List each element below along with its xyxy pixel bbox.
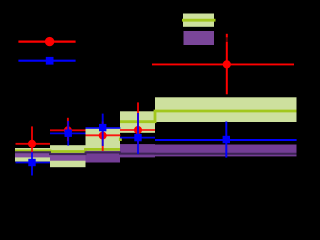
red data point bin2: horizontal error bar [50, 129, 86, 131]
red data point bin5: vertical error bar (main) [226, 42, 228, 95]
red marker bin2 [64, 126, 72, 134]
green band bin4 [120, 111, 155, 133]
purple band bin1 [15, 151, 50, 157]
purple band bin5 [155, 145, 297, 157]
red data point bin5: vertical error bar (upper, bright) [226, 34, 228, 38]
green band bin5 [155, 97, 297, 122]
legend swatch green band [183, 14, 214, 27]
red data point bin2: vertical error bar [67, 118, 69, 141]
legend entry data red: circle marker [45, 37, 54, 46]
green band bin3 [86, 128, 121, 152]
blue data point bin3: horizontal error bar [86, 127, 121, 129]
blue marker bin2 [65, 130, 72, 137]
green step connector remnant at bin3/4 edge [119, 138, 122, 141]
green band bin1 [15, 148, 50, 162]
blue data point bin2: horizontal error bar [50, 132, 86, 134]
purple band bin2 [50, 153, 86, 161]
blue marker bin5 [223, 136, 230, 143]
red data point bin3: horizontal error bar [86, 134, 121, 136]
blue data point bin4: horizontal error bar [120, 137, 155, 139]
red data point bin1: horizontal error bar [16, 143, 51, 145]
blue data point bin1: vertical error bar [31, 152, 33, 176]
blue data point bin2: vertical error bar [67, 121, 69, 146]
blue marker bin4 [134, 134, 141, 141]
legend entry data red: line [18, 40, 75, 42]
blue data point bin5: vertical error bar [225, 122, 227, 158]
green band bin2 [50, 145, 86, 167]
purple band bin3 [86, 151, 121, 163]
legend swatch green central line [182, 19, 216, 22]
red marker bin1 [28, 140, 36, 148]
red data point bin5: horizontal error bar [152, 63, 294, 65]
red marker bin3 [99, 132, 107, 140]
blue marker bin3 [99, 124, 106, 131]
purple band bin4 [120, 144, 155, 157]
red marker bin4 [134, 126, 142, 134]
red data point bin5: vertical error bar (dimmed under legend) [226, 37, 228, 41]
red marker bin5 [223, 60, 231, 68]
legend entry data blue: square marker [46, 57, 54, 65]
red data point bin1: vertical error bar [31, 126, 33, 153]
red data point bin3: vertical error bar [102, 122, 104, 152]
blue data point bin3: vertical error bar [102, 114, 104, 146]
red data point bin4: horizontal error bar [120, 129, 155, 131]
purple dark central step line [15, 152, 297, 154]
green central step line (upper bins) [120, 111, 297, 122]
blue data point bin1: horizontal error bar [16, 162, 51, 164]
red data point bin4: vertical error bar [137, 102, 139, 143]
legend swatch purple band [184, 31, 215, 45]
legend entry data blue: line [18, 60, 75, 62]
blue data point bin4: vertical error bar [137, 113, 139, 154]
blue marker bin1 [28, 159, 35, 166]
green central step line [15, 149, 120, 151]
blue data point bin5: horizontal error bar [155, 139, 297, 141]
